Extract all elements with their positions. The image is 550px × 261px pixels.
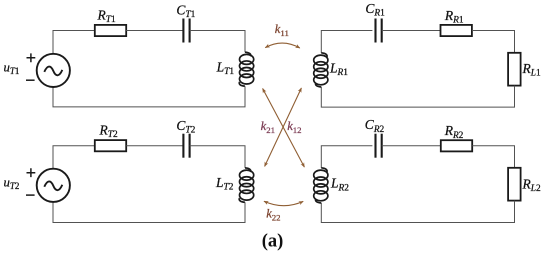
wire loop4 left side top (321, 146, 372, 168)
svg-text:k21: k21 (261, 119, 275, 135)
svg-text:LR2: LR2 (330, 176, 349, 194)
voltage source uT2 (37, 169, 70, 202)
svg-text:k22: k22 (266, 207, 280, 223)
minus terminal of uT2 (26, 194, 35, 196)
coupling arrow k22 (264, 201, 303, 206)
wire loop3 right-bottom segment (321, 86, 514, 108)
svg-text:uT2: uT2 (4, 176, 20, 192)
wire loop2 top middle segment (126, 145, 183, 147)
wire loop3 top middle segment (382, 30, 441, 32)
resistor RR2 (441, 140, 472, 151)
wire loop2 top-right segment (190, 146, 245, 168)
svg-text:RR1: RR1 (444, 8, 464, 26)
svg-text:CT1: CT1 (176, 3, 195, 21)
inductor LT2 (239, 168, 253, 202)
svg-text:k11: k11 (275, 22, 289, 38)
svg-text:RL1: RL1 (522, 61, 541, 79)
svg-text:CR1: CR1 (365, 1, 385, 19)
wire loop2 left-top segment (53, 146, 95, 169)
voltage source uT1 (37, 54, 70, 87)
capacitor CR1 (376, 19, 382, 43)
plus terminal of uT2 (27, 168, 36, 177)
capacitor CR2 (376, 134, 382, 158)
wire loop4 top-right segment (472, 146, 514, 168)
svg-text:LT2: LT2 (215, 175, 234, 193)
plus terminal of uT1 (27, 53, 36, 62)
minus terminal of uT1 (26, 79, 35, 81)
wire loop1 left-top segment (53, 31, 95, 54)
resistor RR1 (441, 25, 472, 36)
svg-text:CR2: CR2 (365, 117, 385, 135)
wire loop4 top middle segment (382, 145, 441, 147)
wire loop1 top-right segment (190, 31, 245, 53)
resistor RT1 (95, 25, 126, 36)
svg-text:RT1: RT1 (97, 8, 116, 26)
svg-text:LR1: LR1 (329, 60, 348, 78)
inductor LR1 (314, 53, 328, 87)
coupling arrow k11 (265, 43, 300, 48)
wire loop4 right-bottom segment (321, 201, 514, 223)
resistor RL1 (508, 53, 520, 86)
wire loop2 right-bottom-left segment (53, 202, 245, 223)
wire loop1 right-bottom-left segment (53, 86, 245, 107)
capacitor CT2 (183, 134, 189, 158)
wire loop1 top middle segment (126, 30, 183, 32)
svg-text:CT2: CT2 (176, 118, 195, 136)
inductor LT1 (239, 52, 253, 86)
wire loop3 top-right segment (472, 31, 515, 53)
svg-text:RT2: RT2 (99, 123, 118, 141)
inductor LR2 (314, 168, 328, 203)
wire loop3 left side top (321, 31, 372, 53)
svg-text:(a): (a) (262, 232, 284, 252)
svg-text:k12: k12 (287, 119, 301, 135)
resistor RL2 (508, 168, 520, 201)
coupling arrow k12 diagonal LT1-LR2 (263, 89, 305, 168)
coupling arrow k21 diagonal LR1-LT2 (265, 88, 302, 166)
svg-text:uT1: uT1 (4, 61, 20, 77)
resistor RT2 (95, 140, 126, 151)
svg-text:RR2: RR2 (444, 123, 464, 141)
svg-text:LT1: LT1 (216, 60, 235, 78)
capacitor CT1 (183, 19, 189, 43)
svg-text:RL2: RL2 (522, 176, 541, 194)
